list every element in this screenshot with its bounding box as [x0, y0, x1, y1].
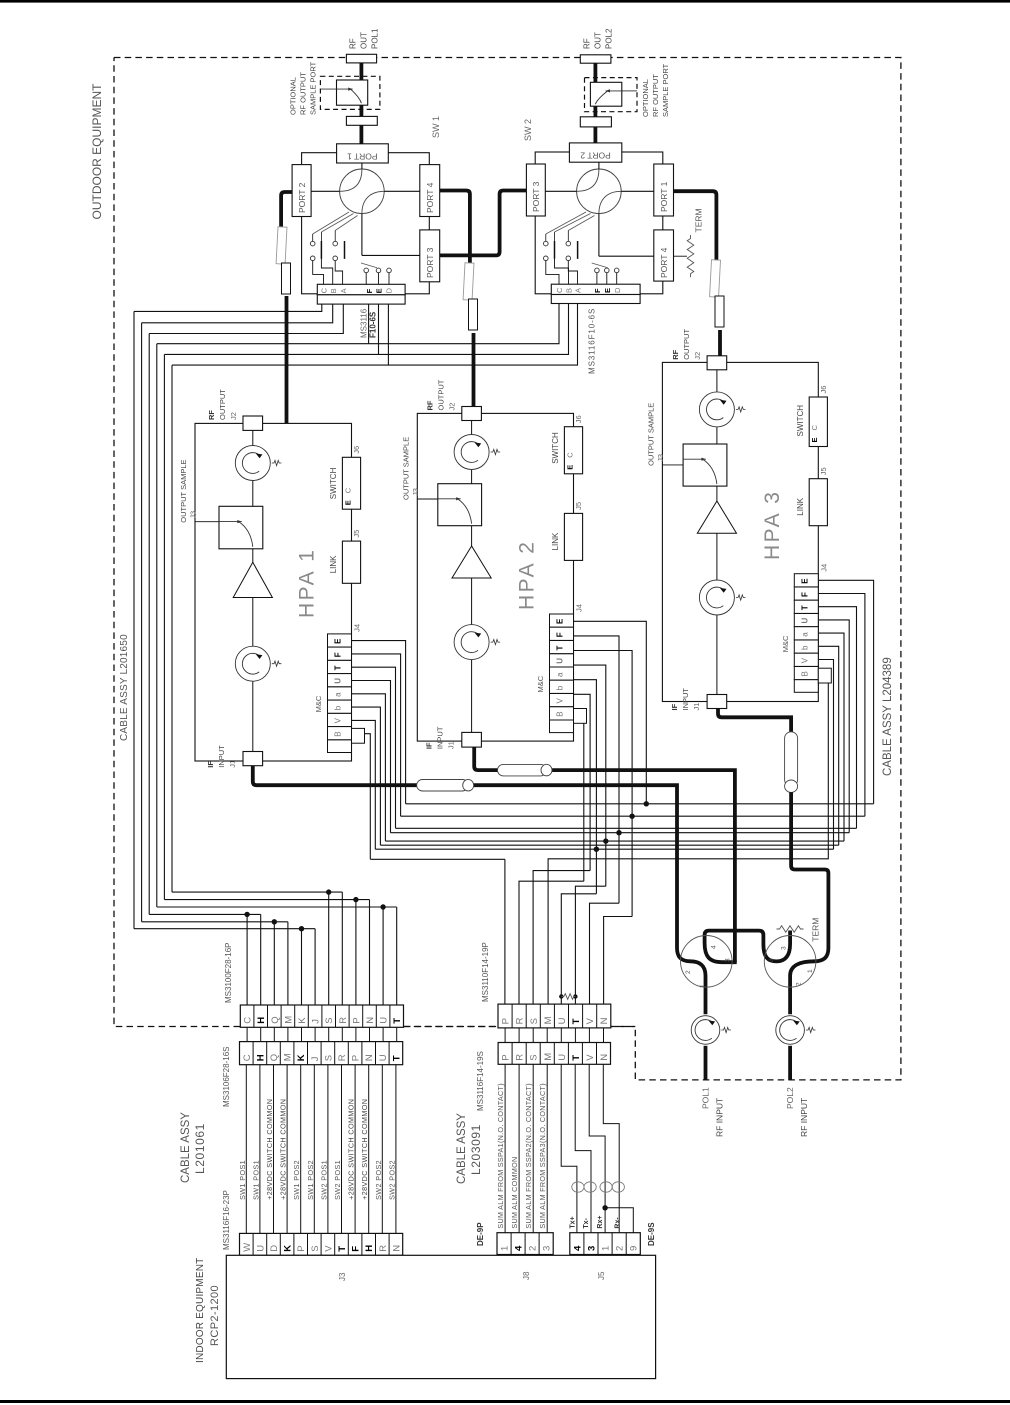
HPA 2 amplifier: [452, 546, 491, 578]
svg-text:CABLE ASSY: CABLE ASSY: [180, 1112, 192, 1183]
svg-text:N: N: [599, 1017, 610, 1024]
svg-text:N: N: [391, 1245, 402, 1252]
HPA 3 amplifier: [697, 501, 736, 533]
svg-text:HPA 3: HPA 3: [761, 490, 784, 560]
svg-text:J6: J6: [819, 386, 828, 394]
svg-text:B: B: [800, 671, 809, 676]
cable wires MS3106F28-16S to MS3116F16-23P with labels: [245, 1065, 247, 1234]
svg-text:U: U: [255, 1245, 266, 1252]
svg-text:R: R: [337, 1054, 348, 1061]
svg-text:+28VDC SWITCH COMMON: +28VDC SWITCH COMMON: [347, 1099, 356, 1200]
HPA 3 LINK connector J5: [809, 479, 827, 526]
HPA 2 output circulator: [454, 435, 489, 470]
wire rows SW1 pins C,B,A to left margin: [134, 304, 322, 311]
M&C wire bundle HPA2 J4 exits: [574, 621, 647, 804]
SW1 aux contact stubs F,E,D: [364, 268, 369, 273]
HPA 1 LINK connector J5: [342, 541, 360, 583]
svg-text:4: 4: [572, 1245, 583, 1251]
svg-text:K: K: [297, 1017, 308, 1024]
svg-text:N: N: [364, 1054, 375, 1061]
svg-text:b: b: [334, 705, 343, 710]
svg-text:OUTPUT SAMPLE: OUTPUT SAMPLE: [401, 437, 410, 500]
svg-text:J3: J3: [338, 1272, 347, 1281]
svg-text:P: P: [501, 1054, 512, 1060]
svg-text:B: B: [556, 711, 565, 716]
svg-text:J5: J5: [574, 502, 583, 510]
SW2 PORT 4 box: [654, 230, 674, 281]
svg-text:b: b: [556, 685, 565, 690]
svg-text:P: P: [351, 1055, 362, 1061]
RF OUT POL1 connector: [346, 54, 376, 63]
svg-text:a: a: [334, 692, 343, 697]
svg-text:MS3116F14-19S: MS3116F14-19S: [476, 1051, 485, 1111]
svg-text:HPA 2: HPA 2: [516, 540, 539, 610]
HPA 2 IF INPUT J1 connector: [462, 732, 482, 747]
svg-text:C: C: [555, 287, 564, 293]
svg-text:1: 1: [807, 969, 814, 973]
junction dots on shared alarm rows: [644, 801, 649, 806]
svg-text:J1: J1: [692, 703, 701, 711]
HPA 3 input circulator: [699, 580, 734, 615]
svg-text:1: 1: [699, 984, 706, 988]
svg-text:HPA 1: HPA 1: [296, 548, 319, 618]
svg-text:LINK: LINK: [329, 555, 338, 573]
svg-text:J3: J3: [656, 454, 665, 462]
svg-text:SW1 POS1: SW1 POS1: [251, 1160, 260, 1200]
svg-text:E: E: [556, 618, 565, 624]
svg-text:M: M: [543, 1016, 554, 1024]
thick RF line SW1 PORT2 to HPA1 RF output: [281, 192, 292, 228]
svg-text:C: C: [343, 487, 352, 493]
svg-text:1: 1: [500, 1246, 511, 1251]
svg-text:SAMPLE PORT: SAMPLE PORT: [661, 63, 670, 117]
svg-text:Rx-: Rx-: [614, 1217, 621, 1229]
HPA 3 M&C connector J4: [794, 574, 818, 587]
wire rows SW1 pins F,E,D / SW2 pins C,B,A shared runs to left margin: [157, 304, 559, 344]
svg-text:INPUT: INPUT: [681, 688, 690, 711]
thick RF line SW2 PORT1 to HPA3 RF output: [674, 191, 717, 261]
circulator on POL2 RF input: [776, 1016, 805, 1045]
svg-text:W: W: [242, 1243, 253, 1252]
svg-text:MS3100F28-16P: MS3100F28-16P: [224, 943, 233, 1003]
HPA 3 output circulator: [699, 392, 734, 427]
svg-text:SUM ALM COMMON: SUM ALM COMMON: [510, 1157, 519, 1229]
RF OUT POL2 connector: [580, 55, 611, 63]
junction dot and branch to DE-9S pin 9: [602, 1205, 607, 1210]
HPA 1 output sample coupler J3: [195, 521, 219, 523]
svg-text:SWITCH: SWITCH: [796, 405, 805, 437]
svg-text:MS3106F28-16S: MS3106F28-16S: [222, 1047, 231, 1107]
svg-text:V: V: [585, 1054, 596, 1061]
svg-text:SW1 POS2: SW1 POS2: [292, 1160, 301, 1200]
HPA 1 RF OUTPUT J2 connector: [243, 416, 263, 430]
svg-text:a: a: [556, 672, 565, 677]
SW1 PORT 1 box: [337, 144, 389, 163]
svg-text:D: D: [613, 287, 622, 293]
svg-text:SW2 POS2: SW2 POS2: [387, 1160, 396, 1200]
svg-text:J2: J2: [693, 352, 702, 360]
thick RF line POL1 below circulator to boundary: [704, 1046, 708, 1080]
svg-text:SW 2: SW 2: [523, 119, 533, 141]
HPA 1 IF INPUT J1 connector: [243, 752, 263, 766]
svg-text:T: T: [391, 1055, 402, 1061]
HPA 1 main RF line: [252, 430, 254, 751]
svg-text:OUTPUT: OUTPUT: [218, 389, 227, 420]
SW2 PORT 2 box: [569, 143, 621, 162]
svg-text:J1: J1: [228, 760, 237, 768]
svg-text:SW2 POS1: SW2 POS1: [333, 1160, 342, 1200]
HPA 1 input circulator: [235, 646, 270, 681]
thick RF path: HPA1 IF input J1 to POL1 transfer switch: [253, 766, 706, 1015]
thick RF line POL2 below circulator to boundary: [788, 1046, 792, 1080]
svg-text:C: C: [565, 452, 574, 458]
svg-text:U: U: [556, 658, 565, 664]
optional RF output sample port SW1 (dashed): [320, 76, 380, 109]
thick n-shaped link between transfer switches: [705, 931, 791, 963]
SW2 internal port lines: [598, 162, 600, 169]
svg-text:F: F: [334, 652, 343, 657]
svg-text:PORT 1: PORT 1: [659, 181, 669, 212]
svg-text:SW2 POS2: SW2 POS2: [374, 1160, 383, 1200]
SW2 sample port lower connector: [580, 117, 611, 127]
thick RF link SW1 PORT3 to SW2 PORT3: [440, 191, 527, 256]
svg-text:SW 1: SW 1: [431, 116, 441, 138]
svg-text:SW1 POS2: SW1 POS2: [306, 1160, 315, 1200]
svg-text:R: R: [515, 1017, 526, 1024]
HPA 1 amplifier: [233, 562, 272, 597]
svg-text:T: T: [334, 665, 343, 670]
svg-text:F: F: [365, 288, 374, 293]
svg-text:4: 4: [711, 945, 718, 949]
svg-text:RF: RF: [349, 38, 358, 49]
svg-text:J8: J8: [522, 1271, 531, 1280]
svg-text:N: N: [365, 1017, 376, 1024]
svg-text:3: 3: [781, 946, 788, 950]
svg-text:OUTPUT SAMPLE: OUTPUT SAMPLE: [179, 459, 188, 522]
HPA 2 M&C connector J4: [550, 614, 574, 627]
svg-text:RF INPUT: RF INPUT: [799, 1098, 809, 1137]
HPA 3 SWITCH connector J6: [809, 397, 827, 447]
svg-text:J4: J4: [353, 624, 362, 632]
svg-text:3: 3: [725, 958, 732, 962]
wires between right connector strips: [504, 1028, 506, 1043]
svg-text:J5: J5: [597, 1271, 606, 1280]
svg-text:Tx+: Tx+: [570, 1216, 577, 1228]
svg-text:E: E: [375, 288, 384, 293]
SW1 PORT 2 box: [292, 165, 311, 217]
wires between left connector strips: [246, 1027, 248, 1041]
svg-text:V: V: [585, 1017, 596, 1024]
HPA 2 SWITCH connector J6: [564, 427, 582, 474]
svg-text:J: J: [311, 1019, 322, 1024]
svg-text:F: F: [800, 592, 809, 597]
SW1 PORT 3 box: [420, 230, 440, 282]
svg-text:M&C: M&C: [314, 695, 323, 712]
outdoor equipment dashed boundary: [114, 58, 901, 1080]
HPA 2 output sample coupler J3: [417, 498, 439, 500]
connector MS3116F16-23P (left): [240, 1233, 403, 1255]
SW1 PORT 4 box: [420, 165, 440, 217]
svg-text:IF: IF: [670, 703, 679, 710]
svg-text:SWITCH: SWITCH: [551, 432, 560, 464]
SW1 rotor: [340, 169, 385, 214]
HPA 2 main RF line: [471, 421, 473, 733]
svg-text:Q: Q: [270, 1016, 281, 1023]
svg-text:S: S: [324, 1017, 335, 1023]
svg-text:L201061: L201061: [193, 1123, 207, 1174]
svg-text:SUM ALM FROM SSPA1(N.O. CONTAC: SUM ALM FROM SSPA1(N.O. CONTACT): [496, 1083, 505, 1229]
svg-text:RF: RF: [426, 400, 435, 410]
svg-text:SUM ALM FROM SSPA3(N.O. CONTAC: SUM ALM FROM SSPA3(N.O. CONTACT): [538, 1083, 547, 1229]
svg-text:2: 2: [796, 982, 803, 986]
svg-text:RF: RF: [207, 410, 216, 420]
svg-text:T: T: [800, 605, 809, 610]
svg-text:2: 2: [685, 970, 692, 974]
coax cable symbols SW2-HPA3: [710, 260, 721, 297]
svg-text:Tx-: Tx-: [583, 1217, 590, 1228]
svg-text:SW2 POS1: SW2 POS1: [319, 1160, 328, 1200]
switch SW2 body: [535, 152, 663, 294]
svg-text:4: 4: [769, 958, 776, 962]
svg-text:MS3116F16-23P: MS3116F16-23P: [222, 1190, 231, 1250]
svg-text:R: R: [378, 1245, 389, 1252]
HPA3 J4 pin B wire to row for pin M: [548, 673, 828, 1004]
svg-text:PORT 3: PORT 3: [531, 181, 541, 212]
terminating resistor TERM at SW2 PORT4: [674, 255, 688, 257]
svg-text:a: a: [800, 632, 809, 637]
svg-text:D: D: [269, 1245, 280, 1252]
svg-text:2: 2: [528, 1246, 539, 1251]
terminating resistor TERM at transfer switch POL2: [777, 926, 804, 933]
svg-text:E: E: [603, 288, 612, 293]
svg-text:M&C: M&C: [781, 635, 790, 652]
svg-text:T: T: [571, 1018, 582, 1024]
svg-text:RF: RF: [671, 349, 680, 359]
svg-text:T: T: [556, 646, 565, 651]
connector DE-9S: [570, 1233, 641, 1255]
SW2 position contacts: [544, 241, 549, 246]
svg-text:MS3116: MS3116: [360, 308, 369, 338]
svg-text:IF: IF: [425, 742, 434, 749]
SW1 sample port lower connector: [346, 116, 377, 125]
svg-text:SUM ALM FROM SSPA2(N.O. CONTAC: SUM ALM FROM SSPA2(N.O. CONTACT): [524, 1083, 533, 1229]
svg-text:H: H: [256, 1017, 267, 1024]
svg-text:B: B: [334, 731, 343, 736]
svg-text:A: A: [574, 288, 583, 293]
svg-text:M: M: [543, 1053, 554, 1061]
svg-text:INDOOR EQUIPMENT: INDOOR EQUIPMENT: [195, 1258, 206, 1363]
svg-text:T: T: [571, 1055, 582, 1061]
svg-text:CABLE ASSY: CABLE ASSY: [456, 1113, 468, 1184]
svg-text:4: 4: [514, 1245, 525, 1251]
svg-text:E: E: [800, 578, 809, 584]
svg-text:TERM: TERM: [811, 918, 821, 942]
svg-text:S: S: [529, 1054, 540, 1060]
svg-text:POL2: POL2: [785, 1087, 795, 1109]
optional RF output sample port SW2 (dashed): [585, 78, 638, 112]
jumper with dots between pins U and T: [559, 994, 563, 998]
svg-text:U: U: [378, 1054, 389, 1061]
HPA 1 SWITCH connector J6: [342, 457, 360, 509]
svg-text:N: N: [599, 1054, 610, 1061]
HPA 3 box: [662, 362, 818, 701]
svg-text:C: C: [242, 1054, 253, 1061]
svg-text:J6: J6: [352, 446, 361, 454]
svg-text:S: S: [529, 1018, 540, 1024]
svg-text:M&C: M&C: [536, 675, 545, 692]
svg-text:B: B: [565, 288, 574, 293]
svg-text:H: H: [364, 1245, 375, 1252]
svg-text:U: U: [334, 678, 343, 684]
svg-text:E: E: [343, 500, 352, 505]
svg-text:F: F: [351, 1246, 362, 1252]
svg-text:MS3110F14-19P: MS3110F14-19P: [481, 942, 490, 1002]
svg-text:J: J: [310, 1056, 321, 1061]
svg-text:TERM: TERM: [694, 208, 704, 232]
svg-text:IF: IF: [206, 761, 215, 768]
svg-text:SAMPLE PORT: SAMPLE PORT: [309, 61, 318, 115]
HPA 2 LINK connector J5: [564, 513, 582, 560]
svg-text:U: U: [800, 618, 809, 624]
thick RF line SW1 PORT4 to HPA2 RF output: [440, 191, 470, 265]
svg-text:J3: J3: [411, 488, 420, 496]
circulator on POL1 RF input: [691, 1016, 720, 1045]
thick RF line SW2 PORT2 to RF OUT POL2: [594, 63, 598, 143]
HPA 2 input circulator: [454, 625, 489, 660]
SW2 connector strip MS3116F10-6S: [551, 284, 640, 294]
SW2 wiper lines to rotor: [546, 212, 586, 234]
svg-text:PORT 1: PORT 1: [347, 152, 378, 162]
transfer switch POL2 (circle with ports 1-4): [764, 936, 816, 988]
svg-text:POL1: POL1: [371, 28, 380, 49]
svg-text:F: F: [556, 632, 565, 637]
HPA 2 RF OUTPUT J2 connector: [462, 407, 482, 421]
transfer switch POL1 (circle with ports 1-4): [681, 936, 733, 988]
svg-text:P: P: [351, 1017, 362, 1023]
coax cable symbol on POL2 line (vertical): [785, 732, 798, 786]
HPA 3 main RF line: [716, 370, 718, 695]
svg-text:+28VDC SWITCH COMMON: +28VDC SWITCH COMMON: [265, 1099, 274, 1200]
wires strips to indoor box: [245, 1254, 247, 1256]
HPA 1 box: [195, 423, 352, 761]
svg-text:E: E: [810, 437, 819, 442]
svg-text:J6: J6: [574, 415, 583, 423]
svg-text:RF OUTPUT: RF OUTPUT: [651, 74, 660, 117]
SW1 internal port lines: [361, 163, 363, 169]
svg-text:PORT 4: PORT 4: [425, 182, 435, 213]
svg-text:SWITCH: SWITCH: [329, 467, 338, 499]
connector MS3116F14-19S (indoor, right): [498, 1043, 610, 1065]
svg-text:K: K: [283, 1245, 294, 1252]
connector DE-9P: [497, 1233, 553, 1255]
svg-text:POL2: POL2: [605, 28, 614, 49]
svg-text:9: 9: [629, 1246, 640, 1251]
svg-text:E: E: [334, 638, 343, 644]
svg-text:V: V: [323, 1245, 334, 1252]
svg-text:C: C: [243, 1017, 254, 1024]
SW1 connector strip MS3116 F10-6S: [317, 284, 405, 295]
svg-text:RF: RF: [583, 38, 592, 49]
wires into connector MS3110F14-19P: [504, 859, 506, 1004]
svg-text:F10-6S: F10-6S: [369, 311, 378, 338]
HPA 2 box: [417, 413, 573, 741]
svg-text:Q: Q: [269, 1054, 280, 1061]
svg-text:T: T: [392, 1018, 403, 1024]
svg-text:INPUT: INPUT: [436, 726, 445, 749]
svg-text:U: U: [557, 1017, 568, 1024]
svg-text:OUTPUT: OUTPUT: [437, 379, 446, 410]
svg-text:b: b: [800, 645, 809, 650]
svg-text:J2: J2: [229, 412, 238, 420]
svg-text:U: U: [557, 1054, 568, 1061]
connector MS3100F28-16P (outdoor, left): [240, 1005, 403, 1027]
svg-text:OUT: OUT: [360, 32, 369, 49]
svg-text:R: R: [515, 1054, 526, 1061]
twisted pair symbols: [572, 1182, 584, 1192]
svg-text:P: P: [296, 1245, 307, 1251]
svg-text:SW1 POS1: SW1 POS1: [238, 1160, 247, 1200]
svg-text:J4: J4: [575, 604, 584, 612]
svg-text:OUTDOOR EQUIPMENT: OUTDOOR EQUIPMENT: [90, 83, 104, 220]
svg-text:M: M: [283, 1053, 294, 1061]
svg-text:J4: J4: [819, 564, 828, 572]
HPA 3 output sample coupler J3: [662, 464, 684, 466]
svg-text:LINK: LINK: [551, 532, 560, 550]
svg-text:CABLE ASSY L204389: CABLE ASSY L204389: [882, 657, 894, 776]
svg-text:LINK: LINK: [796, 497, 805, 515]
coax cable symbols SW1-HPA2: [463, 263, 474, 300]
svg-text:J3: J3: [189, 511, 198, 519]
wire staircase into connector MS3100F28-16P: [134, 928, 315, 930]
svg-text:RF INPUT: RF INPUT: [715, 1098, 725, 1137]
M&C wire bundle HPA3 J4 exits: [819, 580, 874, 804]
SW2 aux contact stubs F,E,D: [595, 268, 600, 273]
svg-text:OPTIONAL: OPTIONAL: [289, 77, 298, 115]
page bottom border line: [0, 1400, 1010, 1403]
svg-text:INPUT: INPUT: [217, 745, 226, 768]
HPA 3 RF OUTPUT J2 connector: [707, 356, 727, 370]
SW2 rotor: [577, 169, 622, 214]
svg-text:RF OUTPUT: RF OUTPUT: [299, 72, 308, 115]
svg-text:C: C: [320, 287, 329, 293]
connector MS3106F28-16S (indoor, left): [240, 1042, 403, 1065]
M&C wire bundle HPA1 J4 exits: [351, 641, 405, 804]
connector MS3110F14-19P (outdoor, right): [498, 1004, 611, 1028]
thick RF line SW1 PORT1 to RF OUT POL1: [359, 63, 363, 144]
indoor equipment RCP2-1200 box: [226, 1255, 655, 1378]
svg-text:PORT 3: PORT 3: [425, 247, 435, 278]
svg-text:DE-9S: DE-9S: [647, 1222, 656, 1246]
svg-text:R: R: [338, 1017, 349, 1024]
svg-text:A: A: [339, 288, 348, 293]
svg-text:DE-9P: DE-9P: [476, 1222, 485, 1246]
svg-text:PORT 2: PORT 2: [297, 182, 307, 213]
SW2 PORT 3 box: [526, 164, 545, 216]
svg-text:T: T: [337, 1246, 348, 1252]
svg-text:B: B: [329, 288, 338, 293]
svg-text:J1: J1: [447, 741, 456, 749]
left margin vertical wire bundle: [133, 311, 135, 928]
HPA 1 M&C connector J4: [328, 634, 352, 647]
SW2 contact tails to pins C,B,A: [546, 261, 559, 285]
thick RF path: HPA3 IF input J1 to POL2 transfer switch: [718, 709, 791, 732]
svg-text:J2: J2: [448, 403, 457, 411]
svg-text:Rx+: Rx+: [597, 1216, 604, 1229]
svg-text:PORT 4: PORT 4: [659, 247, 669, 278]
svg-text:PORT 2: PORT 2: [580, 151, 611, 161]
svg-text:V: V: [556, 698, 565, 704]
svg-text:MS3116F10-6S: MS3116F10-6S: [588, 308, 597, 374]
